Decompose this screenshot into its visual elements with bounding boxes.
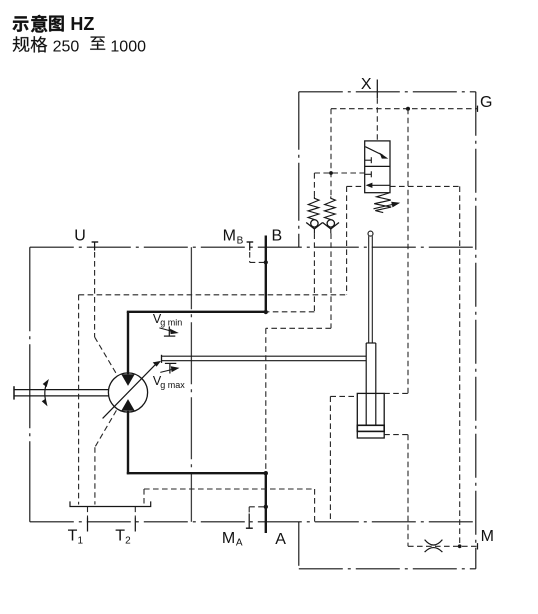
drain line long horizontal	[79, 294, 347, 296]
valve V1 top pilot mark	[365, 159, 372, 161]
pilot line cylinder top-right	[384, 392, 408, 394]
wire pump lower vertical (thick)	[127, 411, 129, 475]
pilot line shuttle to valve	[314, 172, 364, 174]
valve V1 top cell arrow	[365, 147, 383, 156]
junction dot loop bottom	[264, 471, 268, 475]
tank manifold bracket	[70, 501, 151, 506]
pilot line cylinder bottom-right	[384, 434, 408, 436]
pump flow triangle bottom	[121, 399, 134, 411]
section divider line	[190, 247, 192, 522]
pilot line G horizontal	[331, 108, 477, 110]
housing boundary main top edge	[30, 246, 476, 248]
pilot line MB pickup	[249, 252, 251, 262]
pilot line CV2 down	[330, 233, 332, 328]
pilot line shuttle vertical	[330, 109, 332, 197]
svg-text:HZ: HZ	[70, 14, 94, 34]
title line 1 CJK 示意图 (drawn as paths)	[12, 15, 63, 33]
pump U1 circle	[108, 373, 147, 412]
drive shaft double line	[14, 389, 109, 391]
junction dot B/MB	[264, 260, 268, 264]
svg-text:M: M	[481, 528, 494, 545]
port M tick	[477, 543, 479, 549]
title line 2 CJK 规格/至	[13, 36, 106, 52]
drive shaft end cap	[13, 386, 15, 399]
housing boundary top-right box top edge	[299, 91, 476, 93]
drain collector left drop	[143, 489, 145, 504]
control cylinder piston	[357, 425, 384, 431]
check valve CV2 (right) spring	[325, 196, 336, 219]
junction dot loop top	[264, 310, 268, 314]
control cylinder body	[357, 393, 384, 438]
svg-text:U: U	[74, 228, 86, 245]
throttle orifice	[425, 540, 443, 545]
drain line left vertical	[78, 295, 80, 505]
shaft rotation arrow	[45, 385, 46, 400]
port T2 tick	[134, 518, 136, 532]
svg-text:250: 250	[53, 38, 80, 55]
check valve CV2 (right) ball	[327, 220, 334, 227]
check valve CV1 (left) seat	[306, 223, 322, 229]
housing boundary main left edge	[29, 247, 31, 522]
check valve CV2 (right) seat	[323, 223, 339, 229]
check valve CV1 (left) ball	[311, 220, 318, 227]
valve V1 spring adjust arrow	[374, 204, 395, 209]
housing boundary right edge	[475, 92, 477, 569]
junction dot throttle line	[458, 544, 462, 548]
drain line valve right stub	[390, 185, 460, 187]
pilot line T2 drop	[134, 507, 136, 518]
port MB tick	[247, 241, 254, 243]
pilot line cylinder left box	[329, 396, 331, 521]
junction dot shuttle	[329, 171, 333, 175]
svg-text:M: M	[223, 228, 236, 245]
wire loop top horizontal (thick)	[127, 311, 266, 313]
check valve CV1 (left) stub	[313, 229, 315, 234]
junction dot MA pickup	[264, 505, 268, 509]
svg-text:G: G	[480, 94, 492, 111]
valve V1 spring	[374, 193, 391, 213]
svg-text:g min: g min	[160, 318, 182, 328]
svg-text:A: A	[275, 531, 286, 548]
pump variable arrow	[103, 363, 157, 419]
check valve CV1 (left) spring	[308, 196, 319, 219]
svg-text:2: 2	[125, 535, 131, 546]
wire B port line (thick)	[265, 236, 267, 313]
port T1 tick	[87, 518, 89, 532]
pilot line CV2 link to A	[266, 327, 331, 329]
valve V1 bottom pilot mark	[365, 173, 372, 175]
pilot line throttle to M	[408, 545, 477, 547]
svg-text:X: X	[361, 76, 372, 93]
valve V1 mid line	[365, 165, 390, 167]
pilot line U drain down	[94, 252, 96, 337]
drain line valve left stub	[347, 185, 365, 187]
control rod thin double line	[368, 236, 370, 343]
port MA tick	[248, 514, 250, 529]
drain line right vertical	[459, 186, 461, 546]
pump flow triangle top	[121, 374, 134, 386]
svg-text:1000: 1000	[110, 38, 146, 55]
valve V1 bottom cell arrow	[371, 184, 391, 186]
feedback lever end cap	[161, 355, 163, 363]
housing boundary main bottom edge	[30, 521, 476, 523]
feedback lever double line	[162, 355, 367, 357]
svg-text:T: T	[68, 527, 78, 544]
housing boundary sub-box left edge	[298, 522, 300, 569]
pilot line X to valve	[376, 98, 378, 141]
wire A port line (thick)	[265, 473, 267, 533]
svg-text:1: 1	[78, 535, 84, 546]
port G tick	[477, 106, 479, 112]
port U tick	[92, 241, 99, 243]
svg-text:T: T	[115, 527, 125, 544]
drain collector horizontal	[144, 488, 315, 490]
housing boundary sub-box bottom edge	[299, 568, 476, 570]
pilot line CV1 down to B	[313, 233, 315, 311]
junction dot G line	[406, 107, 410, 111]
valve V1 body	[365, 141, 390, 193]
Vg max stop symbol	[165, 362, 176, 364]
drain collector right drop	[314, 489, 316, 522]
housing boundary top-right box left edge	[298, 92, 300, 247]
svg-text:B: B	[237, 236, 244, 247]
pilot line T1 drop	[87, 507, 89, 518]
check valve CV2 (right) stub	[330, 229, 332, 234]
pilot line CV1 up	[313, 173, 315, 196]
control rod top circle	[368, 231, 373, 236]
pilot line pump case drain	[95, 410, 117, 447]
drain line valve-left vertical	[346, 186, 348, 294]
Vg min stop symbol	[164, 335, 175, 337]
wire loop bottom horizontal (thick)	[127, 472, 266, 474]
wire pump upper vertical (thick)	[127, 312, 129, 375]
pilot line MA pickup	[249, 506, 264, 508]
svg-text:M: M	[222, 530, 235, 547]
control rod wide section	[365, 343, 367, 425]
svg-text:g max: g max	[160, 380, 185, 390]
svg-text:A: A	[236, 538, 243, 549]
svg-text:B: B	[272, 228, 283, 245]
port X tick	[376, 80, 378, 99]
